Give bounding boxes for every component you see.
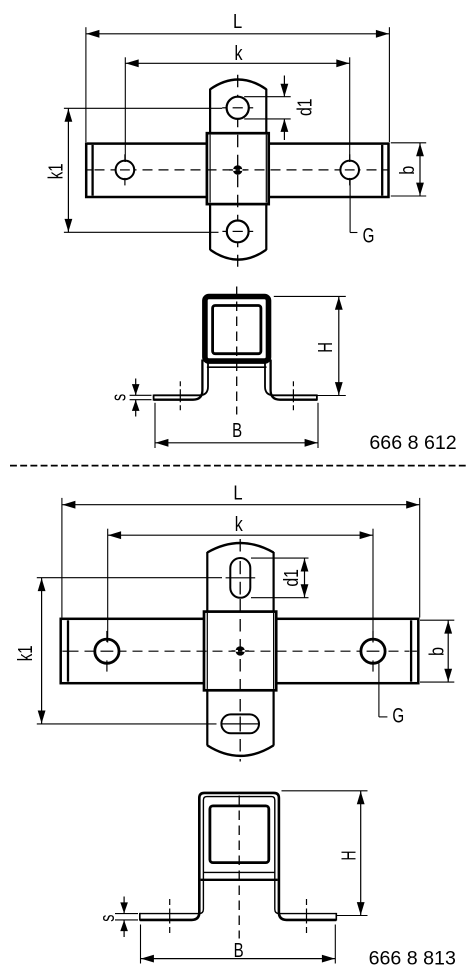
dimension s extension lines bbox=[130, 395, 152, 399]
svg-text:k1: k1 bbox=[14, 645, 37, 661]
part number 666 8 813 bbox=[369, 948, 456, 969]
center dot bbox=[229, 165, 246, 174]
crossbar outline 2 bbox=[61, 619, 419, 683]
G leader line bbox=[350, 180, 357, 233]
dimension k2 extension lines bbox=[108, 529, 373, 643]
box bottom inner line bbox=[207, 366, 267, 368]
label k1 bbox=[45, 163, 68, 179]
tab thin edges inside block bbox=[210, 135, 266, 203]
left foot 2 end cap bbox=[139, 913, 141, 921]
svg-text:B: B bbox=[234, 939, 244, 962]
label H2 bbox=[337, 851, 360, 861]
svg-text:666 8 813: 666 8 813 bbox=[369, 948, 456, 969]
center dot 2 bbox=[232, 646, 249, 655]
right foot end cap bbox=[316, 395, 318, 401]
crossbar right end inner line bbox=[381, 145, 383, 196]
label L2 bbox=[233, 481, 242, 504]
dimension k1 extension lines bbox=[64, 108, 222, 232]
svg-text:k: k bbox=[235, 513, 244, 536]
svg-text:H: H bbox=[337, 851, 360, 861]
right leg and foot outer line bbox=[271, 360, 317, 400]
tab 2 top arc bbox=[207, 543, 273, 553]
svg-text:s: s bbox=[107, 394, 130, 401]
bottom hole crosshair bbox=[222, 230, 253, 232]
label b2 bbox=[425, 647, 448, 656]
left foot hole centermark bbox=[179, 381, 181, 411]
label H bbox=[314, 342, 337, 353]
right bar hole bbox=[340, 154, 359, 185]
crossbar 2 right end inner line bbox=[410, 620, 412, 681]
dimension k2 line with arrows bbox=[108, 531, 373, 539]
front view 2 centerline bbox=[238, 796, 240, 939]
svg-text:b: b bbox=[396, 166, 419, 175]
right bar hole 2 bbox=[361, 631, 385, 672]
bar end centerline dashes bbox=[87, 169, 388, 171]
left leg and foot inner line bbox=[154, 364, 208, 396]
dimension B line with arrows bbox=[155, 439, 318, 447]
svg-text:s: s bbox=[96, 915, 119, 922]
box 2 bottom inner line bbox=[203, 871, 274, 873]
dimension L extension lines bbox=[86, 27, 390, 142]
dimension L line with arrows bbox=[86, 30, 389, 38]
svg-text:k1: k1 bbox=[45, 163, 68, 179]
tab plate 2 edges bbox=[207, 552, 273, 746]
dimension s2 arrows bbox=[120, 897, 128, 938]
svg-text:d1: d1 bbox=[293, 98, 316, 116]
crossbar left end inner line bbox=[91, 145, 93, 196]
label B bbox=[232, 419, 242, 442]
box 2 bottom outer line bbox=[201, 879, 278, 881]
svg-text:L: L bbox=[233, 10, 242, 33]
bar 2 end centerline dashes bbox=[62, 650, 417, 652]
crossbar outline bbox=[86, 144, 388, 197]
dimension k line with arrows bbox=[126, 59, 350, 67]
left foot end cap bbox=[153, 395, 155, 401]
left foot 2 hole centermark bbox=[169, 899, 171, 935]
tab plate edges (thin through block) bbox=[210, 89, 266, 250]
bottom slot crosshair bbox=[221, 717, 260, 732]
tab plate edges thick segments bbox=[210, 89, 266, 250]
dimension d1-2 line with arrows bbox=[301, 558, 309, 597]
label s2 bbox=[96, 915, 119, 922]
dimension H2 line with arrows bbox=[357, 791, 365, 915]
front view centerline bbox=[236, 287, 238, 415]
dimension d1 line with arrows bbox=[281, 76, 289, 141]
top slot crosshair bbox=[226, 561, 256, 595]
top tab slot bbox=[230, 558, 250, 598]
svg-text:H: H bbox=[314, 342, 337, 353]
right leg and foot inner line bbox=[265, 364, 317, 396]
label k bbox=[235, 42, 244, 65]
bottom tab hole bbox=[227, 221, 249, 243]
right foot 2 hole centermark bbox=[306, 899, 308, 935]
label d1-2 bbox=[280, 569, 303, 587]
dimension b2 line with arrows bbox=[444, 620, 452, 682]
left bar hole 2 bbox=[95, 631, 119, 672]
dimension L2 line with arrows bbox=[62, 501, 419, 509]
clamp block outline bbox=[207, 133, 269, 204]
crossbar 2 left end inner line bbox=[67, 620, 69, 681]
horizontal centerline 2 bbox=[69, 650, 410, 652]
tab bottom arc bbox=[210, 250, 266, 260]
dimension B extension lines bbox=[155, 403, 318, 448]
label s bbox=[107, 394, 130, 401]
tab 2 bottom arc bbox=[207, 745, 273, 756]
dimension k1-2 extension lines bbox=[37, 578, 222, 724]
dimension k1 line with arrows bbox=[65, 109, 73, 233]
svg-text:666 8 612: 666 8 612 bbox=[369, 433, 456, 454]
tab plate 2 edges thick segments bbox=[207, 552, 273, 746]
svg-text:d1: d1 bbox=[280, 569, 303, 587]
top hole crosshair bbox=[222, 107, 253, 109]
clamp block 2 outline bbox=[204, 612, 276, 691]
hat profile 2 outer contour bbox=[140, 793, 336, 920]
svg-text:B: B bbox=[232, 419, 242, 442]
inner square tube 2 bbox=[210, 806, 269, 863]
label G2 bbox=[392, 704, 404, 728]
tab 2 thin edges inside block bbox=[207, 613, 273, 689]
tab top arc bbox=[210, 80, 266, 90]
right foot hole centermark bbox=[292, 381, 294, 411]
inner square tube bbox=[213, 306, 261, 354]
vertical centerline 2 bbox=[239, 539, 241, 762]
dimension b extension lines bbox=[391, 143, 426, 196]
dimension k extension lines bbox=[125, 57, 349, 162]
dimension H2 extension lines bbox=[282, 791, 368, 916]
label b bbox=[396, 166, 419, 175]
right foot 2 end cap bbox=[335, 913, 337, 921]
label k1-2 bbox=[14, 645, 37, 661]
dimension d1-2 extension lines bbox=[251, 558, 309, 598]
hat profile box bbox=[205, 297, 269, 362]
part number 666 8 612 bbox=[369, 433, 456, 454]
separator dashed line bbox=[10, 465, 466, 467]
dimension d1 extension lines bbox=[244, 97, 291, 119]
hat profile 2 inner contour bbox=[140, 797, 336, 914]
dimension L2 extension lines bbox=[62, 498, 420, 618]
svg-text:L: L bbox=[233, 481, 242, 504]
label G bbox=[363, 223, 375, 247]
svg-text:G: G bbox=[392, 704, 404, 728]
dimension b line with arrows bbox=[416, 143, 424, 196]
svg-text:k: k bbox=[235, 42, 244, 65]
left bar hole bbox=[116, 154, 135, 185]
left leg and foot outer line bbox=[154, 360, 203, 400]
bottom tab slot bbox=[221, 714, 259, 733]
dimension s2 extension lines bbox=[115, 914, 138, 920]
svg-text:G: G bbox=[363, 223, 375, 247]
dimension s arrows bbox=[132, 379, 140, 417]
dimension H line with arrows bbox=[335, 297, 343, 396]
dimension B2 extension lines bbox=[141, 925, 336, 964]
label d1 bbox=[293, 98, 316, 116]
vertical centerline bbox=[237, 75, 239, 267]
dimension b2 extension lines bbox=[420, 620, 454, 682]
horizontal centerline bbox=[95, 169, 382, 171]
G2 leader line bbox=[379, 663, 388, 717]
svg-text:b: b bbox=[425, 647, 448, 656]
dimension B2 line with arrows bbox=[141, 955, 335, 963]
dimension k1-2 line with arrows bbox=[38, 578, 46, 724]
dimension H extension lines bbox=[274, 296, 346, 395]
top tab hole bbox=[227, 97, 249, 119]
label k2 bbox=[235, 513, 244, 536]
label B2 bbox=[234, 939, 244, 962]
label L bbox=[233, 10, 242, 33]
